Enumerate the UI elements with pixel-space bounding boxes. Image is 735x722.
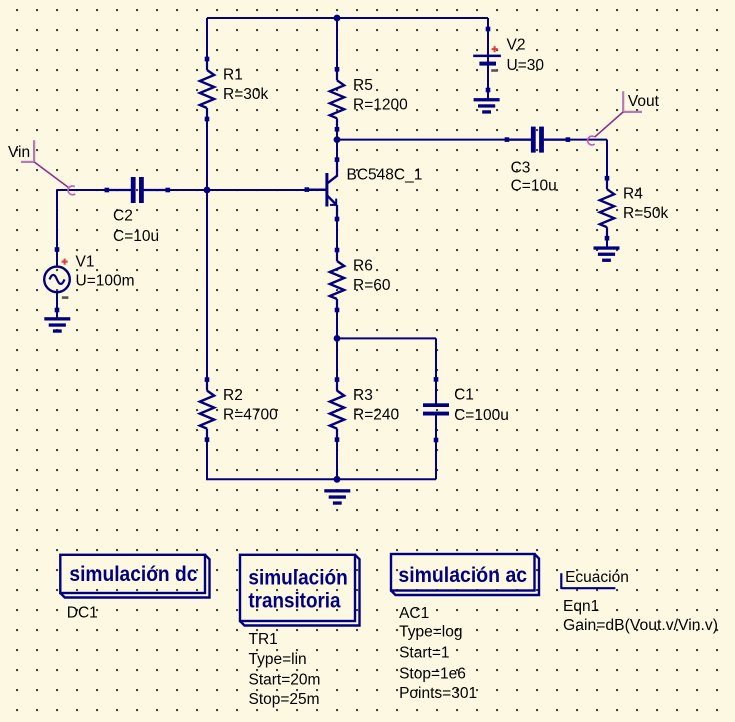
simulation box transient bbox=[240, 555, 355, 621]
svg-text:R3: R3 bbox=[353, 387, 373, 404]
wire R1 bottom bbox=[206, 119, 208, 190]
resistor R5 bbox=[335, 67, 340, 72]
wire V1 top bbox=[56, 190, 58, 267]
svg-text:R1: R1 bbox=[223, 67, 243, 84]
ground below V1 bbox=[44, 317, 70, 320]
node emitter / C1 bbox=[334, 335, 341, 342]
capacitor C2 bbox=[105, 188, 110, 193]
simulation box DC bbox=[60, 555, 205, 593]
svg-text:R6: R6 bbox=[353, 258, 373, 275]
svg-text:Gain=dB(Vout.v/Vin.v): Gain=dB(Vout.v/Vin.v) bbox=[563, 617, 718, 634]
ground below R4 bbox=[594, 246, 620, 249]
svg-text:simulación ac: simulación ac bbox=[398, 564, 527, 587]
svg-text:AC1: AC1 bbox=[399, 605, 429, 622]
svg-text:C=100u: C=100u bbox=[454, 407, 509, 424]
svg-text:C=10u: C=10u bbox=[113, 228, 159, 245]
node ground rail bbox=[334, 476, 341, 483]
svg-text:Vin: Vin bbox=[8, 144, 30, 161]
wire R2 bottom bbox=[206, 439, 208, 479]
svg-text:simulación dc: simulación dc bbox=[69, 563, 197, 586]
dc source V2 bbox=[486, 27, 491, 32]
wire Vout down bbox=[606, 140, 608, 179]
svg-text:Start=1: Start=1 bbox=[399, 645, 449, 662]
svg-text:R=4700: R=4700 bbox=[223, 407, 278, 424]
wire R2 top bbox=[206, 190, 208, 380]
svg-text:Type=lin: Type=lin bbox=[249, 651, 307, 668]
resistor R3 bbox=[335, 377, 340, 382]
equation Eqn1 bbox=[561, 573, 615, 589]
V1 minus sign bbox=[62, 296, 69, 299]
ground below V2 bbox=[474, 98, 500, 101]
V2 plus sign bbox=[492, 48, 498, 50]
resistor R2 bbox=[205, 377, 210, 382]
capacitor C1 bbox=[434, 377, 439, 382]
svg-text:Eqn1: Eqn1 bbox=[563, 598, 599, 615]
V2 minus sign bbox=[491, 69, 498, 72]
TR1 properties bbox=[249, 631, 321, 708]
wire R1 top bbox=[206, 18, 208, 59]
svg-text:Ecuación: Ecuación bbox=[565, 569, 629, 586]
node top rail / R5 bbox=[334, 15, 341, 22]
svg-text:simulación: simulación bbox=[248, 566, 347, 589]
wire input corner bbox=[57, 189, 131, 191]
svg-text:Points=301: Points=301 bbox=[399, 685, 477, 702]
svg-text:transitoria: transitoria bbox=[248, 590, 340, 613]
wire emitter to C1 bbox=[337, 337, 436, 339]
label Vout bbox=[588, 91, 642, 145]
wire V1 bottom bbox=[56, 292, 58, 318]
ac source V1 bbox=[55, 247, 60, 252]
svg-text:R=240: R=240 bbox=[353, 407, 399, 424]
svg-text:BC548C_1: BC548C_1 bbox=[347, 166, 423, 183]
label Vin bbox=[21, 140, 75, 195]
resistor R4 bbox=[605, 176, 610, 181]
svg-text:Stop=25m: Stop=25m bbox=[249, 691, 320, 708]
node collector out bbox=[334, 136, 341, 143]
svg-text:V2: V2 bbox=[507, 37, 526, 54]
svg-text:Stop=1e6: Stop=1e6 bbox=[399, 665, 466, 682]
svg-text:Type=log: Type=log bbox=[399, 624, 462, 641]
wire collector to C3 bbox=[337, 139, 531, 141]
svg-text:TR1: TR1 bbox=[249, 631, 278, 648]
capacitor C3 bbox=[505, 137, 510, 142]
svg-text:R4: R4 bbox=[623, 186, 643, 203]
svg-text:C1: C1 bbox=[454, 387, 474, 404]
wire R4 bottom bbox=[606, 238, 608, 247]
svg-text:R5: R5 bbox=[353, 77, 373, 94]
wire top rail bbox=[207, 17, 488, 19]
svg-text:R=60: R=60 bbox=[353, 277, 391, 294]
wire C3 to Vout corner bbox=[544, 139, 607, 141]
svg-text:DC1: DC1 bbox=[67, 605, 98, 622]
svg-text:Vout: Vout bbox=[628, 93, 660, 110]
svg-text:R=50k: R=50k bbox=[623, 205, 668, 222]
transistor Q1 BC548C_1 bbox=[305, 157, 340, 221]
resistor R6 bbox=[335, 248, 340, 253]
wire C1 top bbox=[435, 338, 437, 403]
svg-text:C3: C3 bbox=[511, 160, 531, 177]
wire base bbox=[144, 189, 326, 191]
wire C1 bottom bbox=[435, 415, 437, 479]
svg-text:C2: C2 bbox=[113, 207, 133, 224]
wire R5 top bbox=[336, 18, 338, 69]
ground main rail bbox=[324, 489, 350, 492]
wire R3 bottom bbox=[336, 439, 338, 479]
node base divider bbox=[204, 187, 211, 194]
AC1 properties bbox=[399, 605, 477, 702]
simulation box AC bbox=[391, 554, 535, 591]
svg-text:U=30: U=30 bbox=[507, 57, 545, 74]
svg-text:Start=20m: Start=20m bbox=[249, 671, 321, 688]
svg-text:V1: V1 bbox=[76, 254, 95, 271]
V1 plus sign bbox=[62, 261, 68, 263]
wire collector bbox=[336, 129, 338, 176]
svg-text:R2: R2 bbox=[223, 387, 243, 404]
wire bottom rail bbox=[206, 478, 436, 480]
svg-text:R=1200: R=1200 bbox=[353, 96, 408, 113]
wire R6 bottom bbox=[336, 310, 338, 380]
svg-text:R=30k: R=30k bbox=[223, 86, 268, 103]
wire emitter bbox=[336, 205, 338, 250]
resistor R1 bbox=[205, 57, 210, 62]
svg-text:U=100m: U=100m bbox=[76, 273, 135, 290]
wire V2 bbox=[487, 18, 489, 99]
svg-text:C=10u: C=10u bbox=[511, 178, 557, 195]
